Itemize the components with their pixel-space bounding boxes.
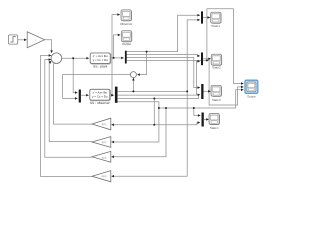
- svg-text:SS : plant: SS : plant: [93, 64, 107, 68]
- svg-text:Output: Output: [122, 42, 131, 46]
- svg-text:State1: State1: [211, 24, 220, 28]
- svg-text:SS : observer: SS : observer: [90, 101, 111, 105]
- svg-text:K(1): K(1): [102, 123, 107, 126]
- svg-text:K(2): K(2): [102, 141, 107, 144]
- svg-text:State2: State2: [212, 66, 221, 70]
- svg-text:y = Cx + Du: y = Cx + Du: [92, 94, 108, 98]
- svg-text:Observer: Observer: [120, 22, 132, 26]
- svg-text:State4: State4: [210, 126, 219, 130]
- svg-text:Scope: Scope: [247, 95, 256, 99]
- svg-text:K(4): K(4): [102, 175, 107, 178]
- svg-text:State3: State3: [212, 98, 221, 102]
- svg-text:K(3): K(3): [102, 156, 107, 159]
- svg-text:y = Cx + Du: y = Cx + Du: [93, 58, 109, 62]
